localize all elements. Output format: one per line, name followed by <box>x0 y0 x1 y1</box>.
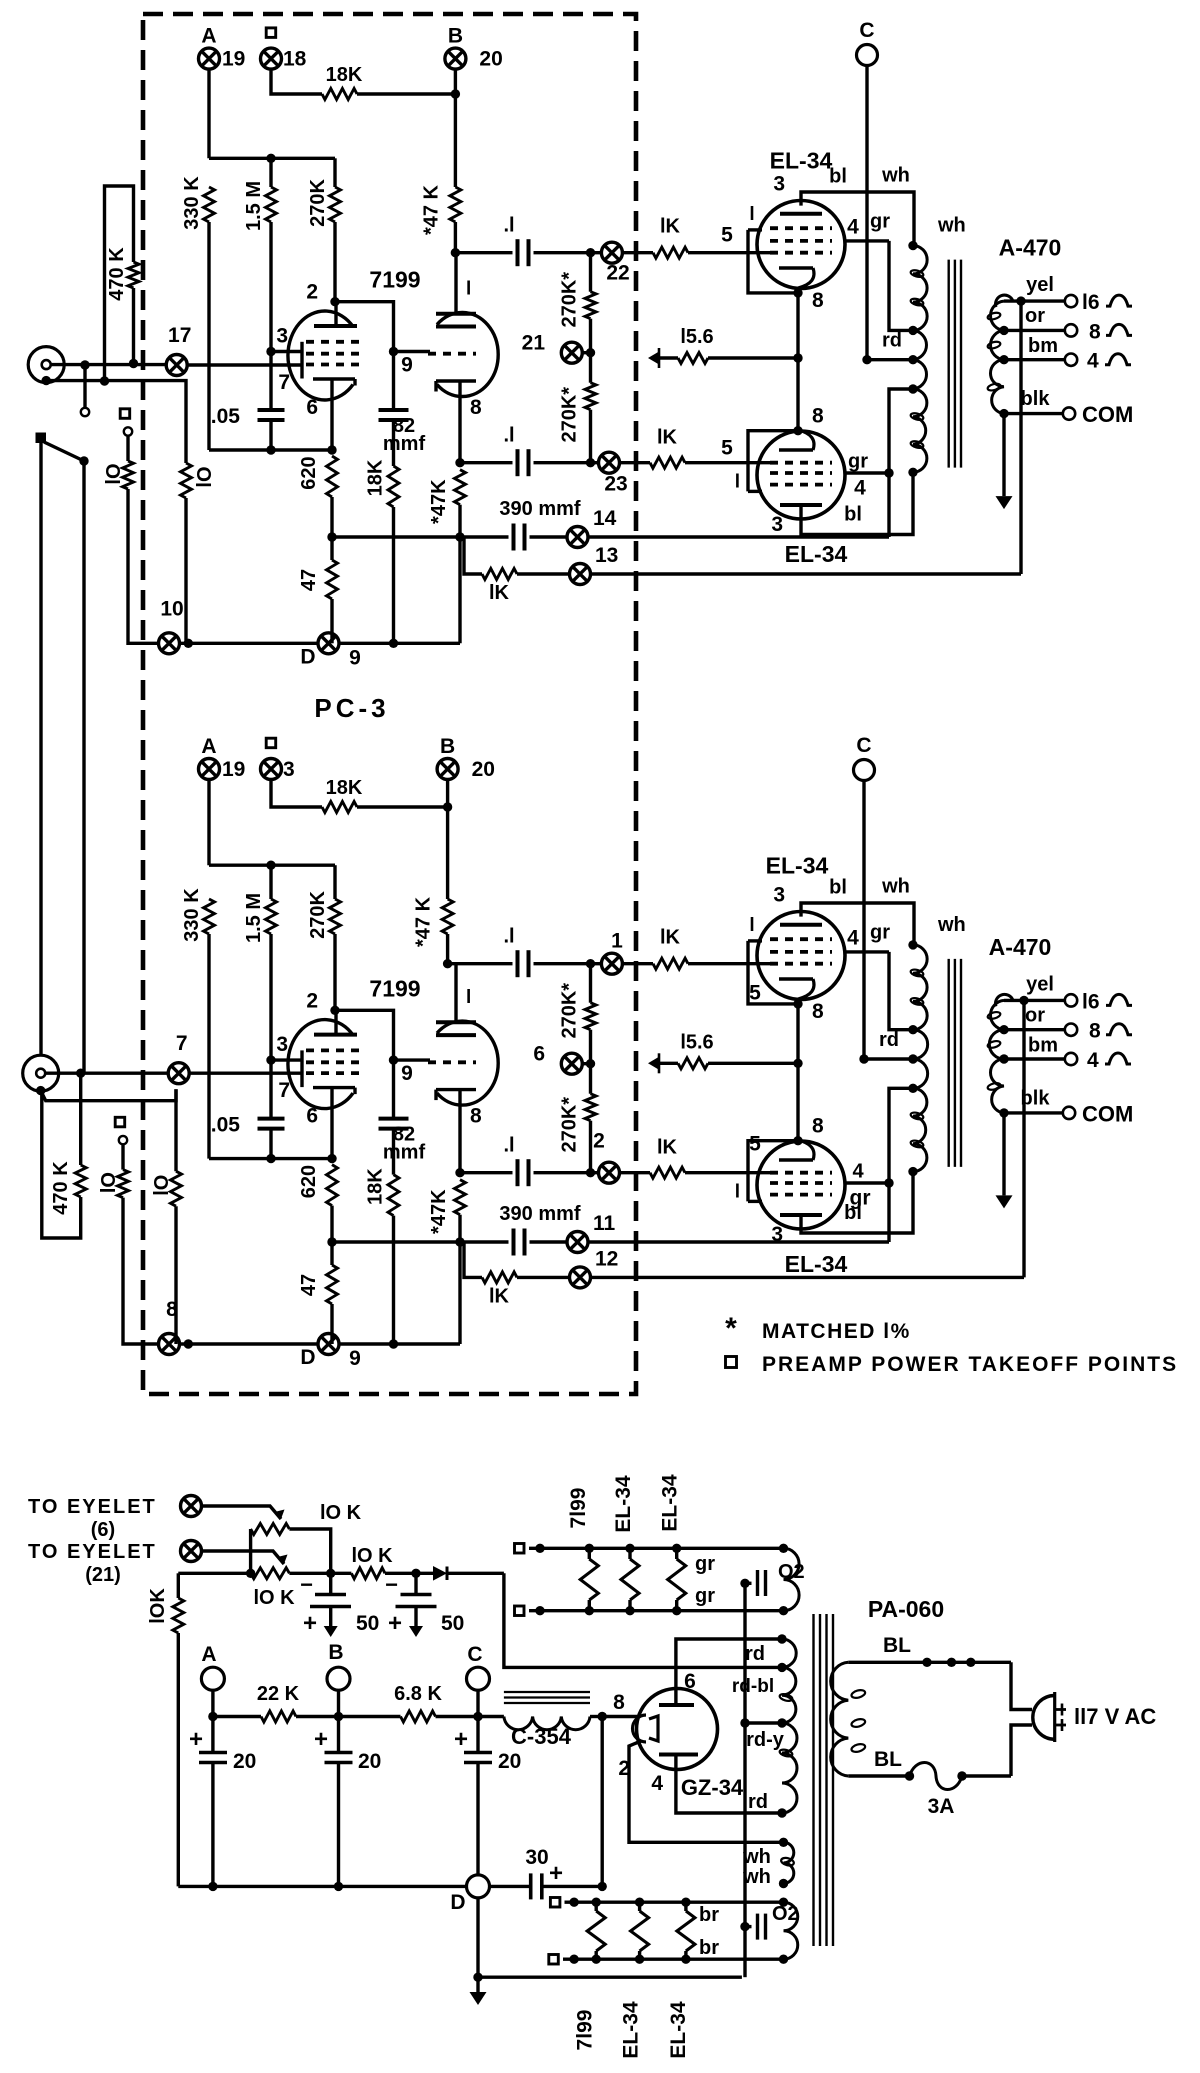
tube GZ-34 envelope <box>637 1689 718 1770</box>
A-470 primary winding <box>913 945 927 1030</box>
wire 390mmf row <box>332 535 509 538</box>
svg-text:+: + <box>314 1726 328 1753</box>
ground line bottom <box>478 1975 742 1978</box>
eyelet D 9 <box>318 1334 339 1355</box>
primary bottom wire with fuse <box>848 1774 909 1777</box>
capacitor 50 second <box>414 1573 417 1594</box>
resistor 15.6 <box>659 1062 678 1065</box>
svg-text:bl: bl <box>829 877 847 899</box>
EL-34 top envelope <box>757 201 845 289</box>
svg-text:23: 23 <box>604 473 627 496</box>
stub terminal <box>83 365 86 408</box>
svg-text:D: D <box>450 1891 465 1914</box>
svg-text:620: 620 <box>298 456 320 489</box>
svg-text:rd: rd <box>748 1791 768 1813</box>
resistor 1.5M <box>269 865 272 899</box>
7199 pentode grid bracket <box>300 342 303 379</box>
capacitor 50 first <box>329 1573 332 1594</box>
cathode join wire with 15.6 junction <box>796 293 799 431</box>
svg-text:or: or <box>1025 1004 1045 1026</box>
svg-text:lO: lO <box>194 466 216 487</box>
svg-text:l: l <box>749 915 754 936</box>
svg-text:+: + <box>189 1726 203 1753</box>
tube 7199 triode envelope <box>437 313 498 397</box>
wire choke to GZ-34 pin 8 <box>478 1715 504 1718</box>
svg-text:470 K: 470 K <box>106 247 128 301</box>
svg-text:lK: lK <box>660 927 681 949</box>
EL-34 top suppressor bracket pin 1 <box>748 228 762 231</box>
svg-text:6: 6 <box>684 1670 696 1693</box>
svg-text:9: 9 <box>349 1347 361 1370</box>
HV winding rd <box>782 1639 796 1667</box>
svg-text:7: 7 <box>176 1032 188 1055</box>
eyelet 22 <box>601 242 622 263</box>
wh winding <box>784 1842 794 1883</box>
svg-text:270K*: 270K* <box>559 1097 581 1153</box>
svg-text:l6: l6 <box>1082 990 1100 1013</box>
resistor 1K upper <box>622 962 653 965</box>
ground arrow secondary <box>1002 414 1005 497</box>
svg-text:l: l <box>466 279 471 300</box>
resistor 330K <box>204 899 215 934</box>
svg-text:30: 30 <box>525 1846 548 1869</box>
svg-text:B: B <box>440 735 455 758</box>
svg-text:rd: rd <box>745 1643 765 1665</box>
svg-text:9: 9 <box>349 646 361 669</box>
input signal wire <box>51 363 167 366</box>
eyelet B 20 <box>445 48 466 69</box>
svg-text:gr: gr <box>848 451 868 473</box>
svg-text:bl: bl <box>844 1202 862 1224</box>
svg-text:(6): (6) <box>91 1519 115 1541</box>
resistor 470K box <box>100 376 109 385</box>
7199 pin 3 screen wire <box>271 350 302 353</box>
EL-34 bot cathode <box>779 448 813 451</box>
pot interconnect wires <box>249 1529 252 1573</box>
svg-text:4: 4 <box>847 216 859 239</box>
svg-text:(21): (21) <box>85 1564 121 1586</box>
wire pin 3 lower tube to transformer (bl) <box>801 1172 913 1233</box>
capacitor .02 top <box>740 1579 749 1588</box>
svg-text:ll7 V AC: ll7 V AC <box>1074 1704 1156 1729</box>
7199 pentode plate <box>314 324 357 328</box>
eyelet 11 <box>530 1240 568 1243</box>
svg-text:22: 22 <box>606 262 629 285</box>
svg-text:gr: gr <box>870 922 890 944</box>
EL-34 top cathode <box>779 266 813 269</box>
resistor 620 <box>327 456 338 497</box>
left 10 ohm resistor (takeoff) <box>120 409 130 419</box>
svg-text:PC-3: PC-3 <box>314 693 389 723</box>
svg-text:6: 6 <box>533 1043 545 1066</box>
svg-text:EL-34: EL-34 <box>770 148 833 174</box>
capacitor .1 upper <box>448 962 513 965</box>
svg-text:blk: blk <box>1021 1087 1051 1109</box>
svg-text:21: 21 <box>522 332 546 355</box>
EL-34 bot suppressor bracket pin 1 <box>748 490 762 493</box>
1K feedback stub <box>460 535 463 538</box>
svg-text:.l: .l <box>503 1135 514 1157</box>
svg-text:BL: BL <box>883 1634 911 1657</box>
svg-text:l: l <box>735 1181 740 1202</box>
7199 pentode grid rows <box>306 1049 362 1053</box>
7199 triode cathode <box>436 379 476 382</box>
secondary blk COM <box>1004 1111 1063 1114</box>
svg-text:8: 8 <box>1089 1020 1101 1043</box>
svg-text:O2: O2 <box>772 1903 799 1925</box>
svg-text:7: 7 <box>278 1079 290 1102</box>
capacitor 30 <box>490 1885 531 1888</box>
svg-text:EL-34: EL-34 <box>659 1474 682 1532</box>
eyelet 1 <box>601 953 622 974</box>
EL-34 top plate <box>780 212 822 216</box>
svg-text:50: 50 <box>441 1612 464 1635</box>
eyelet 12 <box>517 1276 570 1279</box>
svg-text:+: + <box>303 1610 317 1637</box>
eyelet C <box>854 760 875 781</box>
svg-text:8: 8 <box>470 396 482 419</box>
svg-text:l: l <box>735 471 740 492</box>
right 10 ohm resistor (shield) <box>184 381 187 463</box>
svg-text:20: 20 <box>472 758 495 781</box>
primary top wire with switch <box>848 1661 1011 1664</box>
svg-text:.05: .05 <box>211 1114 241 1137</box>
7199 pentode grid rows <box>306 340 362 344</box>
svg-text:3: 3 <box>773 884 785 907</box>
svg-text:rd: rd <box>882 330 902 352</box>
wire 18K to B junction <box>357 92 455 95</box>
svg-text:3: 3 <box>283 758 295 781</box>
svg-text:wh: wh <box>937 215 966 237</box>
svg-text:4: 4 <box>854 477 866 500</box>
svg-text:lO: lO <box>98 1172 120 1193</box>
capacitor .1 lower <box>460 461 513 464</box>
resistor 1K (feedback) <box>482 569 517 580</box>
wire 330K down to cathode rail <box>207 222 210 450</box>
wire switch to ch2 input <box>82 461 85 1073</box>
svg-text:PREAMP POWER TAKEOFF POINTS: PREAMP POWER TAKEOFF POINTS <box>762 1353 1178 1376</box>
svg-text:yel: yel <box>1026 274 1054 296</box>
svg-text:17: 17 <box>168 324 191 347</box>
svg-text:7199: 7199 <box>369 975 420 1001</box>
7199 pin 7 input wire <box>187 363 302 366</box>
bias pot 2 wiper wire <box>202 1551 285 1564</box>
svg-text:1.5 M: 1.5 M <box>243 893 265 943</box>
resistor 1K (feedback) <box>482 1272 517 1283</box>
svg-text:+: + <box>388 1610 402 1637</box>
svg-text:1: 1 <box>611 930 623 953</box>
wire pin 3 top tube to transformer (bl/wh) <box>801 192 914 246</box>
svg-text:8: 8 <box>812 1115 824 1138</box>
wire C down to rd tap <box>865 66 868 360</box>
svg-text:*47 K: *47 K <box>420 184 442 235</box>
svg-text:4: 4 <box>847 927 859 950</box>
wire rd tap <box>864 1057 913 1060</box>
svg-text:O2: O2 <box>778 1561 805 1583</box>
resistor 270K (screen divider) <box>333 158 336 187</box>
secondary or 8 ohm <box>1004 329 1065 332</box>
wire screen junction down to eyelet row <box>887 473 890 537</box>
wire 330K top row <box>209 864 335 867</box>
feedback wire to 16 ohm tap <box>591 1276 1025 1279</box>
svg-text:l: l <box>466 987 471 1008</box>
bias pot 1 wiper wire <box>202 1506 282 1519</box>
EL-34 bot suppressor bracket pin 1 <box>748 1200 762 1203</box>
svg-text:19: 19 <box>222 758 245 781</box>
wire pin 4 lower tube to screen tap (gr) <box>845 471 889 474</box>
legend preamp power takeoff points <box>726 1357 737 1368</box>
svg-text:8: 8 <box>812 289 824 312</box>
svg-text:18: 18 <box>283 48 307 71</box>
capacitor 82 mmf <box>392 352 395 411</box>
wire cathode rail <box>209 1157 332 1160</box>
svg-text:.l: .l <box>503 425 514 447</box>
wire 270K down to pin 2 junction <box>333 222 336 302</box>
svg-text:4: 4 <box>1087 1049 1099 1072</box>
EL-34 bot envelope <box>757 431 845 519</box>
svg-text:18K: 18K <box>326 777 363 799</box>
svg-text:lK: lK <box>660 216 681 238</box>
svg-text:C: C <box>467 1643 482 1666</box>
svg-text:PA-060: PA-060 <box>868 1596 944 1622</box>
svg-text:C: C <box>856 734 871 757</box>
7199 triode grid <box>428 352 476 356</box>
capacitor 20 C <box>476 1717 479 1753</box>
svg-text:EL-34: EL-34 <box>667 2001 690 2059</box>
secondary brn 4 ohm <box>1004 1057 1065 1060</box>
svg-text:4: 4 <box>651 1772 663 1795</box>
7199 pentode cathode <box>313 377 355 380</box>
svg-text:lK: lK <box>657 427 678 449</box>
GZ-34 plate bottom pin 4 <box>659 1753 698 1757</box>
wire pin 8 rail to filament <box>602 1715 640 1718</box>
secondary blk COM <box>1004 412 1063 415</box>
wire eyelet A down to 330K row <box>207 69 210 158</box>
svg-text:270K: 270K <box>307 179 329 227</box>
eyelet 23 <box>599 452 620 473</box>
svg-text:6.8 K: 6.8 K <box>394 1683 442 1705</box>
resistor 18K <box>322 802 357 813</box>
bias diode <box>416 1572 433 1575</box>
capacitor .02 bottom <box>745 1925 752 1928</box>
preamp takeoff square + eyelet 3 <box>266 738 276 748</box>
eyelet 14 <box>530 535 568 538</box>
eyelet 2 <box>599 1162 620 1183</box>
PC-3 board dashed border <box>143 14 636 1394</box>
svg-text:B: B <box>328 1641 343 1664</box>
svg-text:mmf: mmf <box>383 433 426 455</box>
svg-text:3: 3 <box>773 173 785 196</box>
wire pin 4 lower tube to screen tap (gr) <box>845 1181 889 1184</box>
capacitor 390 mmf <box>512 1229 516 1256</box>
wire eyelet A down to 330K row <box>207 780 210 866</box>
wire rd tap <box>867 358 913 361</box>
capacitor .05 <box>258 408 285 412</box>
svg-text:EL-34: EL-34 <box>619 2001 642 2059</box>
resistor 330K <box>204 187 215 222</box>
heater line gr bottom <box>515 1606 525 1616</box>
svg-text:*: * <box>725 1312 737 1345</box>
svg-text:lO K: lO K <box>253 1587 295 1609</box>
svg-text:BL: BL <box>874 1748 902 1771</box>
wire bias to rd-bl tap <box>504 1573 782 1667</box>
svg-text:7l99: 7l99 <box>567 1488 590 1529</box>
eyelet to 21 <box>181 1541 202 1562</box>
A-470 core <box>948 260 950 468</box>
wire 1K to pin 5 upper EL-34 <box>688 251 770 254</box>
7199 pin 6 cathode lead <box>330 379 333 450</box>
svg-text:3: 3 <box>771 513 783 536</box>
bias pot 10K lower <box>251 1568 290 1579</box>
1K feedback stub <box>460 1240 463 1243</box>
svg-text:wh: wh <box>742 1846 771 1868</box>
svg-text:wh: wh <box>937 914 966 936</box>
svg-text:EL-34: EL-34 <box>766 853 829 879</box>
PA-060 core <box>812 1614 814 1946</box>
wire .05 cap leg <box>269 1060 272 1119</box>
svg-text:47: 47 <box>298 1274 320 1296</box>
capacitor 390 mmf <box>512 524 516 551</box>
resistor *47K (B plate load) <box>442 899 453 934</box>
wire D rail <box>180 1342 319 1345</box>
right 10 ohm resistor (shield) <box>174 1089 177 1171</box>
svg-text:2: 2 <box>306 281 318 304</box>
svg-text:lK: lK <box>489 1285 510 1307</box>
svg-text:wh: wh <box>881 165 910 187</box>
resistor 270K (screen divider) <box>333 865 336 899</box>
svg-text:rd-y: rd-y <box>746 1729 785 1751</box>
svg-text:bl: bl <box>829 166 847 188</box>
resistor 270K* upper <box>589 253 592 292</box>
7199 pin 8 cathode lead <box>458 381 461 463</box>
wire pin 3 lower tube to transformer (bl) <box>801 472 913 534</box>
svg-text:18K: 18K <box>326 64 363 86</box>
7199 triode grid <box>428 1060 476 1064</box>
svg-text:EL-34: EL-34 <box>612 1475 635 1533</box>
input eyelet 7 <box>168 1063 189 1084</box>
br winding <box>784 1902 798 1959</box>
wire switch to ch2 jack <box>39 443 42 1055</box>
7199 pin 3 screen wire <box>271 1058 302 1061</box>
wire 270K down to pin 2 junction <box>333 934 336 1010</box>
svg-text:blk: blk <box>1021 388 1051 410</box>
svg-text:EL-34: EL-34 <box>785 1251 848 1277</box>
svg-text:5: 5 <box>721 437 733 460</box>
svg-text:22 K: 22 K <box>257 1683 300 1705</box>
7199 triode plate lead pin 1 <box>454 253 457 314</box>
svg-text:A-470: A-470 <box>999 235 1062 261</box>
resistor *47K (B plate load) <box>450 187 461 222</box>
svg-text:+: + <box>549 1860 563 1887</box>
capacitor 20 A <box>211 1717 214 1753</box>
svg-text:20: 20 <box>358 1750 381 1773</box>
svg-text:270K*: 270K* <box>559 983 581 1039</box>
svg-text:6: 6 <box>306 1105 318 1128</box>
7199 triode plate <box>436 1020 476 1024</box>
svg-text:A: A <box>201 735 216 758</box>
input shield wire <box>42 376 51 385</box>
svg-text:−: − <box>300 1572 313 1597</box>
eyelet 21 <box>589 319 592 353</box>
EL-34 bot grid rows <box>770 483 832 487</box>
wire pin 3 top tube to transformer (bl/wh) <box>801 903 914 945</box>
svg-text:D: D <box>300 1346 315 1369</box>
svg-text:*47K: *47K <box>428 479 450 524</box>
heater line br bottom <box>549 1955 559 1965</box>
ground 50 second <box>414 1607 417 1627</box>
heater line br top <box>550 1898 560 1908</box>
wire 1.5M to screen junction <box>269 934 272 1060</box>
svg-text:5: 5 <box>721 224 733 247</box>
wire eyelet sq down to 18K row <box>271 780 322 808</box>
A-470 secondary winding <box>995 994 1013 1006</box>
A-470 secondary winding <box>995 295 1013 307</box>
svg-text:5: 5 <box>749 1133 761 1156</box>
117V primary winding BL <box>831 1662 849 1776</box>
svg-text:4: 4 <box>852 1161 864 1183</box>
svg-text:*47K: *47K <box>428 1189 450 1234</box>
7199 pentode grid bracket <box>300 1050 303 1087</box>
7199 pin 6 cathode lead <box>330 1088 333 1159</box>
svg-text:C: C <box>859 19 874 42</box>
svg-text:9: 9 <box>401 354 413 377</box>
resistor 10K series <box>331 1572 352 1575</box>
ground 50 first <box>329 1607 332 1627</box>
wire .05 cap leg <box>269 352 272 411</box>
wire 18K to B junction <box>357 805 448 808</box>
terminal A <box>201 1667 224 1690</box>
wires to line plug <box>1011 1662 1032 1709</box>
heater line gr top <box>515 1544 525 1554</box>
svg-text:20: 20 <box>498 1750 521 1773</box>
wire D rail right <box>339 1342 460 1345</box>
input shield wire <box>36 1086 45 1095</box>
resistor *47K lower <box>455 470 466 505</box>
svg-text:2: 2 <box>593 1130 605 1153</box>
svg-text:18K: 18K <box>365 1168 387 1205</box>
svg-text:11: 11 <box>593 1212 616 1235</box>
eyelet 13 <box>517 572 570 575</box>
heater resistors top set <box>585 1544 594 1553</box>
svg-text:8: 8 <box>613 1691 625 1714</box>
resistor 22K <box>213 1715 261 1718</box>
svg-text:or: or <box>1025 305 1045 327</box>
svg-text:A-470: A-470 <box>989 934 1052 960</box>
svg-text:6: 6 <box>306 396 318 419</box>
svg-text:gr: gr <box>870 211 890 233</box>
svg-text:7l99: 7l99 <box>574 2010 597 2051</box>
tube 7199 triode envelope <box>437 1021 498 1105</box>
wire eyelet B down through 47K to plate junction <box>454 69 457 187</box>
7199 pin 8 cathode lead <box>458 1090 461 1173</box>
svg-text:10: 10 <box>160 597 183 620</box>
svg-text:+: + <box>454 1726 468 1753</box>
EL-34 bot plate <box>780 1213 822 1217</box>
ground arrow D <box>476 1977 479 1992</box>
mono switch <box>36 433 47 444</box>
svg-text:.l: .l <box>503 926 514 948</box>
wire 1K to pin 5 upper EL-34 <box>688 962 770 965</box>
svg-text:47: 47 <box>298 569 320 591</box>
resistor 270K* upper <box>589 964 592 1003</box>
EL-34 top suppressor bracket pin 1 <box>748 939 762 942</box>
input jack <box>23 1055 59 1091</box>
7199 pentode plate <box>314 1033 357 1037</box>
wire eyelet to screen junction <box>588 535 889 538</box>
svg-text:lOK: lOK <box>147 1588 169 1624</box>
svg-text:330 K: 330 K <box>181 176 203 230</box>
resistor 18K (no.2) <box>392 420 395 466</box>
